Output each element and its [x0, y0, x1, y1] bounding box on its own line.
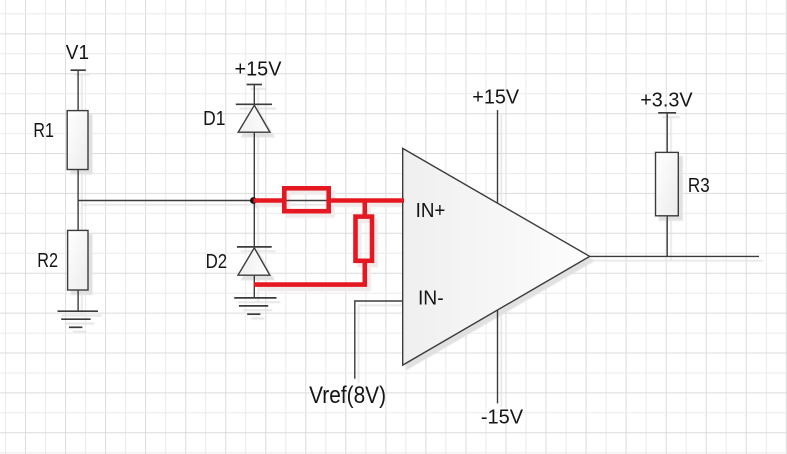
- svg-text:R1: R1: [33, 119, 54, 142]
- svg-text:-15V: -15V: [481, 406, 524, 429]
- svg-text:+15V: +15V: [235, 58, 282, 81]
- svg-text:+15V: +15V: [472, 85, 519, 108]
- svg-text:R2: R2: [37, 249, 58, 272]
- svg-text:D2: D2: [206, 250, 228, 273]
- svg-text:+3.3V: +3.3V: [640, 89, 693, 112]
- svg-text:R3: R3: [688, 174, 710, 197]
- svg-text:D1: D1: [203, 107, 225, 130]
- svg-text:IN+: IN+: [416, 199, 446, 222]
- svg-text:IN-: IN-: [418, 286, 444, 309]
- svg-text:V1: V1: [66, 41, 89, 64]
- svg-text:Vref(8V): Vref(8V): [309, 382, 386, 409]
